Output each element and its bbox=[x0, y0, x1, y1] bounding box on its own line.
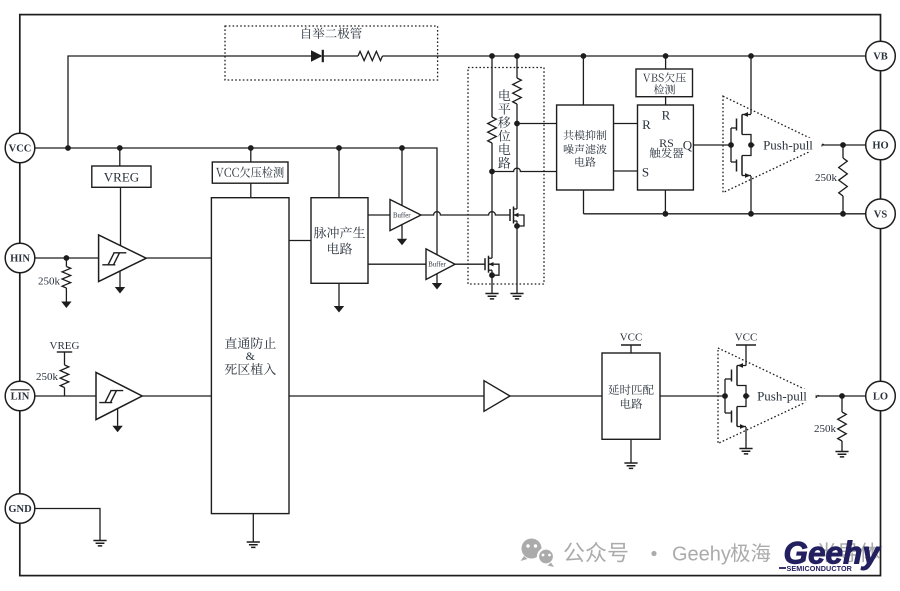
ground below pulse-gen bbox=[338, 283, 340, 306]
buffer U3 bbox=[390, 200, 421, 231]
wire schmitt2 out bbox=[142, 395, 211, 397]
junction VS/push-pull bbox=[748, 211, 754, 217]
dashed box: bootstrap diode 自举二极管 bbox=[225, 26, 438, 80]
wire CM filter to VS rail bbox=[583, 190, 585, 214]
LO push-pull CMOS pair bbox=[736, 366, 738, 386]
ground below buffer U3 bbox=[401, 225, 403, 239]
wire deadtime LO out bbox=[289, 395, 484, 397]
svg-text:VCC: VCC bbox=[9, 144, 32, 155]
watermark text 公众号 Geehy极海半导体 bbox=[564, 542, 627, 562]
wire VREG to schmitt1 bbox=[120, 187, 122, 245]
wire HO output bbox=[751, 144, 843, 146]
wire LIN input bbox=[35, 395, 97, 397]
svg-text:LIN: LIN bbox=[11, 392, 30, 403]
wire VCC to buffer1 bbox=[401, 148, 403, 206]
junction: VB rail / VBS UVLO supply bbox=[663, 53, 669, 59]
svg-text:VREG: VREG bbox=[50, 340, 80, 352]
wire VCC to pulse-gen box bbox=[338, 148, 340, 198]
ground symbol GND pin bbox=[93, 541, 106, 546]
wire schmitt1 out bbox=[146, 257, 211, 259]
wire UVLO to deadtime box bbox=[250, 183, 252, 198]
pin VCC bbox=[5, 133, 35, 163]
svg-text:&: & bbox=[246, 349, 256, 363]
buffer U5 (LO path) bbox=[484, 381, 510, 412]
block RS 触发器 (RS flip-flop) bbox=[638, 105, 694, 190]
svg-text:SEMICONDUCTOR: SEMICONDUCTOR bbox=[787, 564, 853, 573]
wire buffer1 to level-shift NMOS gate (hops) bbox=[421, 212, 510, 215]
svg-text:HO: HO bbox=[872, 141, 888, 152]
wire VB to VBS UVLO bbox=[665, 56, 667, 69]
svg-text:Buffer: Buffer bbox=[428, 262, 446, 269]
wire VS rail bbox=[584, 213, 867, 215]
junction VCC/bootstrap bbox=[65, 145, 71, 151]
svg-text:Geehy: Geehy bbox=[672, 544, 731, 566]
svg-text:Push-pull: Push-pull bbox=[757, 388, 807, 403]
level-shift NMOS Q1 (set) bbox=[491, 172, 493, 259]
wire HIN input bbox=[35, 257, 99, 259]
wire pulse-gen to buffer2 bbox=[368, 263, 426, 265]
HO push-pull CMOS pair bbox=[741, 115, 743, 135]
watermark wechat icon bbox=[521, 539, 555, 568]
buffer U4 bbox=[426, 249, 455, 280]
bootstrap resistor bbox=[358, 51, 383, 60]
pin HIN bbox=[5, 243, 35, 273]
svg-text:Push-pull: Push-pull bbox=[763, 137, 813, 152]
wire GND pin bbox=[35, 509, 101, 541]
pin VB bbox=[866, 41, 896, 71]
ground below schmitt U1 bbox=[119, 271, 121, 287]
block VBS欠压检测 bbox=[636, 69, 693, 97]
junction: VB rail / CM filter supply bbox=[581, 53, 587, 59]
svg-text:Buffer: Buffer bbox=[393, 212, 411, 219]
svg-text:VCC: VCC bbox=[735, 332, 758, 344]
svg-text:250k: 250k bbox=[814, 423, 837, 435]
resistor 250k HO-VS bbox=[842, 145, 844, 158]
ground below buffer U4 bbox=[436, 274, 438, 283]
ground below delay-match bbox=[630, 439, 632, 463]
block 延时匹配电路 (delay matching) bbox=[602, 353, 660, 439]
pin LIN (active low) bbox=[5, 381, 35, 411]
wire LO output bbox=[746, 395, 842, 397]
junction LO/250k bbox=[839, 393, 845, 399]
junction HIN/250k bbox=[64, 255, 70, 261]
wire VCC to UVLO bbox=[250, 148, 252, 162]
level-shift NMOS Q2 (reset) bbox=[516, 124, 518, 210]
block 脉冲产生电路 (pulse generation) bbox=[311, 198, 368, 284]
junction: VB rail / HO push-pull supply bbox=[748, 53, 754, 59]
wire HO NMOS to VS bbox=[750, 176, 752, 214]
svg-text:VS: VS bbox=[874, 209, 888, 220]
wire: VCC rail bbox=[35, 148, 438, 255]
wire filter R out bbox=[614, 123, 638, 125]
junction VCC/UVLO bbox=[248, 145, 254, 151]
svg-text:VCC: VCC bbox=[620, 332, 643, 344]
block 共模抑制噪声滤波电路 (common-mode noise filter) bbox=[557, 105, 614, 190]
svg-text:250k: 250k bbox=[38, 276, 61, 288]
svg-text:Q: Q bbox=[683, 138, 693, 153]
ground below LO 250k bbox=[835, 452, 848, 457]
junction R node bbox=[514, 121, 520, 127]
resistor 250k LIN pull-up bbox=[64, 352, 66, 365]
bootstrap diode D1 bbox=[311, 50, 323, 62]
svg-text:S: S bbox=[642, 165, 649, 180]
wire: VB rail to VB pin bbox=[383, 55, 867, 57]
junction VCC/pulse-gen bbox=[336, 145, 342, 151]
svg-text:250k: 250k bbox=[815, 172, 838, 184]
svg-text:250k: 250k bbox=[36, 371, 59, 383]
wire VCC to bootstrap diode bbox=[68, 56, 311, 148]
wire buffer2 to level-shift NMOS gate bbox=[455, 263, 485, 265]
svg-text:VREG: VREG bbox=[104, 170, 139, 185]
ground below schmitt U2 bbox=[117, 409, 119, 426]
schmitt trigger U2 (LIN) bbox=[96, 372, 142, 419]
ground below LO NMOS bbox=[745, 427, 747, 448]
schmitt trigger U1 (HIN) bbox=[99, 235, 147, 282]
wire pulse-gen to buffer1 bbox=[368, 214, 390, 216]
block VCC UVLO 欠压检测 bbox=[212, 162, 288, 183]
svg-text:R: R bbox=[662, 108, 671, 123]
wire diode to bootstrap resistor bbox=[324, 55, 358, 57]
junction S node bbox=[489, 169, 495, 175]
level-shift resistor left bbox=[491, 56, 493, 117]
wire S to CM filter (hop over R branch) bbox=[492, 168, 557, 171]
wire delay-match to LO driver bbox=[660, 395, 725, 397]
wire buffer to delay-match bbox=[510, 395, 602, 397]
dashed box: level shift 电平移位电路 bbox=[468, 68, 544, 285]
wire R to CM filter bbox=[517, 123, 557, 125]
svg-text:VB: VB bbox=[873, 52, 888, 63]
resistor 250k LO-GND bbox=[841, 396, 843, 412]
svg-text:HIN: HIN bbox=[10, 254, 30, 265]
block 直通防止&死区植入 (shoot-through prevention / dead-zone) bbox=[211, 198, 289, 514]
svg-text:R: R bbox=[642, 117, 651, 132]
wire VB to CM filter bbox=[582, 56, 584, 105]
svg-text:GND: GND bbox=[8, 504, 32, 515]
pin LO bbox=[866, 381, 896, 411]
dashed triangle: LO driver bbox=[718, 348, 819, 444]
wire VB to HO PMOS bbox=[750, 56, 752, 114]
wire RS latch to VS rail bbox=[664, 190, 666, 214]
wire VBS UVLO to RS latch bbox=[665, 97, 667, 105]
junction: VB rail / level-shift R right bbox=[514, 53, 520, 59]
junction VCC/VREG bbox=[117, 145, 123, 151]
junction VS/250k bbox=[840, 211, 846, 217]
ground below HIN 250k bbox=[61, 302, 71, 309]
block VREG bbox=[92, 166, 151, 187]
junction VCC/buffer1 bbox=[399, 145, 405, 151]
wire VREG stem bbox=[119, 148, 121, 166]
pin GND bbox=[5, 494, 35, 524]
svg-text:LO: LO bbox=[873, 392, 888, 403]
level-shift resistor right bbox=[516, 56, 518, 78]
resistor 250k HIN pull-down bbox=[65, 258, 67, 267]
ground below dead-time box bbox=[252, 514, 254, 542]
wire deadtime to pulse-gen bbox=[289, 240, 311, 242]
junction: VB rail / level-shift R left bbox=[489, 53, 495, 59]
dashed triangle: HO driver bbox=[723, 96, 824, 192]
pin VS bbox=[866, 199, 896, 229]
wire Q out bbox=[693, 144, 731, 146]
wire filter S out bbox=[614, 170, 638, 172]
junction HO/250k bbox=[840, 142, 846, 148]
pin HO bbox=[866, 130, 896, 160]
